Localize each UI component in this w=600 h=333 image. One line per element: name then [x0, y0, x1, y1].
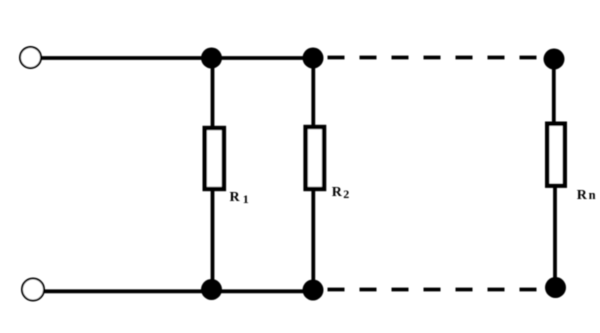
terminal T2 (bottom-left input, open circle)	[22, 279, 44, 301]
resistor R1 body	[205, 128, 224, 189]
wire top rail (node A to node B)	[212, 56, 314, 60]
wire (node C down to Rn top)	[552, 59, 556, 124]
wire top rail dashed (node B to node C)	[328, 56, 545, 60]
wire (node B down to R2 top)	[311, 58, 315, 126]
wire (R1 bottom down to node D)	[211, 190, 215, 290]
terminal T1 (top-left input, open circle)	[20, 47, 41, 68]
svg-text:R: R	[332, 185, 343, 200]
node D (bottom junction of R1)	[201, 279, 222, 300]
wire bottom rail (terminal T2 to node D)	[45, 289, 212, 293]
wire top rail (terminal T1 to node A)	[42, 56, 212, 60]
node F (bottom junction of Rn)	[545, 277, 566, 298]
wire (R2 bottom down to node E)	[311, 189, 315, 290]
wire (node A down to R1 top)	[211, 58, 215, 127]
node B (top junction of R2)	[303, 48, 324, 69]
wire (Rn bottom down to node F)	[553, 186, 557, 288]
svg-text:n: n	[589, 188, 596, 202]
resistor Rn body	[547, 124, 565, 186]
svg-text:R: R	[577, 188, 588, 203]
node C (top junction of Rn)	[544, 49, 565, 70]
wire bottom rail (node D to node E)	[212, 289, 314, 293]
wire bottom rail dashed (node E to node F)	[328, 288, 547, 292]
svg-text:R: R	[230, 190, 241, 205]
node E (bottom junction of R2)	[303, 280, 324, 301]
node A (top junction of R1)	[201, 48, 222, 69]
resistor R2 body	[306, 127, 325, 189]
svg-text:2: 2	[343, 187, 349, 201]
svg-text:1: 1	[243, 192, 249, 206]
